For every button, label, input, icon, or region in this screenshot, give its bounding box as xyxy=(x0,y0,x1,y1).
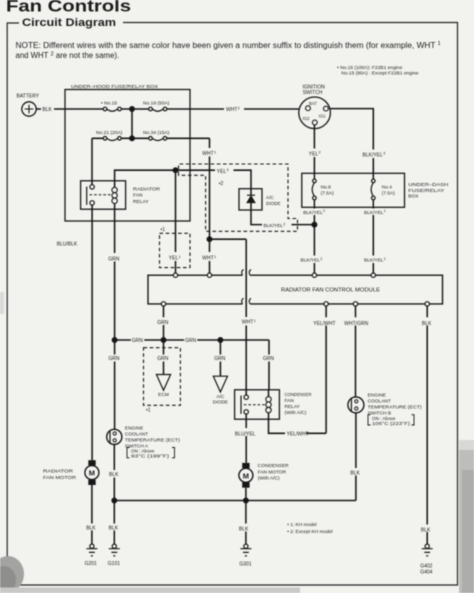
node row2 junction xyxy=(130,136,134,140)
svg-text:G301: G301 xyxy=(239,562,251,568)
radiator fan motor xyxy=(43,460,99,485)
ECT switch A xyxy=(107,425,181,458)
scan artifact left edge mark xyxy=(0,292,4,314)
bullet model notes xyxy=(287,522,332,535)
battery xyxy=(17,93,40,116)
wire GRN down to A/C diode arrow xyxy=(219,340,221,376)
ignition switch xyxy=(299,84,331,128)
svg-text:No.19 (50A): No.19 (50A) xyxy=(143,101,170,107)
svg-text:RELAY: RELAY xyxy=(285,404,301,410)
svg-text:BLK: BLK xyxy=(42,107,52,113)
svg-text:FUSE/RELAY: FUSE/RELAY xyxy=(408,188,445,194)
svg-text:BLK: BLK xyxy=(86,525,96,531)
module terminal WHT/GRN xyxy=(353,302,357,306)
svg-text:G402: G402 xyxy=(420,563,432,569)
wire WHT1 branch to condenser relay column xyxy=(210,238,247,240)
node YEL1 branch xyxy=(173,168,177,172)
node GRN junction at A/C diode arrow xyxy=(218,338,222,342)
svg-text:• 2: Except KH model: • 2: Except KH model xyxy=(287,529,332,535)
wire BLU/BLK relay to radiator fan motor xyxy=(91,205,93,460)
radiator fan relay xyxy=(81,181,161,209)
svg-text:BLK/YEL3: BLK/YEL3 xyxy=(363,152,386,159)
radiator fan control module xyxy=(148,270,443,304)
under-dash fuse/relay box xyxy=(302,173,405,207)
node WHT1 branch xyxy=(207,237,211,241)
svg-text:FAN: FAN xyxy=(133,193,143,199)
svg-text:106°C (223°F): 106°C (223°F) xyxy=(372,421,411,426)
fuse No.15 xyxy=(101,101,121,112)
svg-text:BATTERY: BATTERY xyxy=(17,93,40,99)
ground G301 xyxy=(239,544,251,568)
wire YEL1 to module terminal xyxy=(175,170,177,273)
svg-text:No.34 (15A): No.34 (15A) xyxy=(143,130,170,136)
svg-text:IG2: IG2 xyxy=(303,116,310,121)
svg-text:No.8: No.8 xyxy=(321,184,331,190)
condenser fan motor xyxy=(239,463,289,488)
svg-text:RELAY: RELAY xyxy=(133,199,149,205)
svg-text:No.21 (20A): No.21 (20A) xyxy=(96,130,123,136)
svg-text:•1: •1 xyxy=(161,227,166,233)
wire BLK/YEL2 from No.8 down to module xyxy=(313,207,315,273)
svg-text:GRN: GRN xyxy=(108,256,120,262)
svg-text:FAN: FAN xyxy=(285,398,295,404)
wire relay coil top to YEL3 xyxy=(115,170,176,187)
svg-text:BLK: BLK xyxy=(421,527,431,533)
module terminal GRN xyxy=(161,302,165,306)
svg-text:•1: •1 xyxy=(146,408,151,414)
svg-text:RADIATOR FAN CONTROL MODULE: RADIATOR FAN CONTROL MODULE xyxy=(281,288,381,294)
wire row2 down to relay pin xyxy=(91,138,93,184)
svg-text:BLK: BLK xyxy=(239,527,249,533)
svg-text:BAT: BAT xyxy=(309,101,317,106)
wire GRN down to ECM arrow xyxy=(163,340,165,375)
svg-text:GRN: GRN xyxy=(157,320,169,326)
module terminal WHT1 xyxy=(207,273,211,277)
svg-text:COOLANT: COOLANT xyxy=(368,398,391,404)
svg-text:BLU/YEL: BLU/YEL xyxy=(235,432,256,438)
svg-text:YEL1: YEL1 xyxy=(169,255,181,262)
svg-text:G101: G101 xyxy=(108,561,120,567)
svg-text:BOX: BOX xyxy=(408,194,419,200)
svg-text:UNDER–DASH: UNDER–DASH xyxy=(408,182,449,188)
fuse No.4 xyxy=(371,173,395,207)
wire GRN relay coil down to bus xyxy=(114,204,116,341)
svg-text:BLK/YEL1: BLK/YEL1 xyxy=(364,209,386,216)
svg-text:G404: G404 xyxy=(420,569,432,575)
A/C diode arrow xyxy=(213,376,227,392)
svg-text:COOLANT: COOLANT xyxy=(125,431,148,437)
svg-text:G201: G201 xyxy=(85,561,97,567)
node GRN junction at ECT A xyxy=(112,338,116,342)
node BLK bus at G101 xyxy=(112,498,116,502)
ECM arrow xyxy=(156,375,170,391)
svg-text:BLU/BLK: BLU/BLK xyxy=(57,242,78,248)
wire WHT/GRN module to ECT B xyxy=(355,306,357,397)
svg-text:GRN: GRN xyxy=(263,356,275,362)
svg-text:GRN: GRN xyxy=(157,356,169,362)
svg-text:GRN: GRN xyxy=(132,338,144,344)
svg-text:(7.5A): (7.5A) xyxy=(321,191,334,197)
svg-text:ENGINE: ENGINE xyxy=(368,392,386,398)
svg-text:BLK: BLK xyxy=(109,525,119,531)
svg-text:ENGINE: ENGINE xyxy=(125,425,143,431)
module terminal YEL1 xyxy=(173,273,177,277)
svg-text:M: M xyxy=(89,469,95,478)
fuse No.34 xyxy=(143,130,170,141)
svg-text:YEL/WHT: YEL/WHT xyxy=(287,432,309,438)
ground G101 xyxy=(108,544,120,567)
svg-text:SWITCH: SWITCH xyxy=(303,90,323,96)
wire GRN module to bus xyxy=(163,306,165,340)
wire WHT1 to module terminal xyxy=(209,239,211,273)
svg-text:Fan Controls: Fan Controls xyxy=(6,0,131,16)
svg-text:• No.15 (100A): F22B1 engine: • No.15 (100A): F22B1 engine xyxy=(337,65,403,71)
svg-text:CONDENSER: CONDENSER xyxy=(285,392,312,398)
wire GRN bus xyxy=(115,340,269,390)
svg-text:YEL3: YEL3 xyxy=(217,168,229,175)
wire IG1 to BLK/YEL3 xyxy=(331,109,374,174)
scan artifact right strip xyxy=(459,440,474,593)
wire BLK/YEL2 diode to junction xyxy=(251,210,314,225)
svg-text:YEL2: YEL2 xyxy=(309,151,321,158)
A/C diode D1 xyxy=(239,189,281,210)
svg-text:FAN MOTOR: FAN MOTOR xyxy=(258,469,287,475)
svg-text:IG1: IG1 xyxy=(319,114,326,119)
svg-text:BLK/YEL1: BLK/YEL1 xyxy=(364,257,386,264)
svg-text:A/C: A/C xyxy=(216,394,225,400)
wire WHT2 to ignition switch xyxy=(190,108,299,110)
svg-text:DIODE: DIODE xyxy=(213,399,228,405)
wire row1 between fuses xyxy=(121,108,190,110)
svg-text:and WHT 2 are not the same).: and WHT 2 are not the same). xyxy=(16,51,120,60)
wire BLK ground bus horizontal xyxy=(114,500,356,502)
svg-text:WHT/GRN: WHT/GRN xyxy=(344,321,368,327)
svg-text:CONDENSER: CONDENSER xyxy=(258,463,290,469)
ECT switch B xyxy=(348,392,422,425)
wire YEL/WHT coil to module xyxy=(269,306,327,433)
svg-text:BLK: BLK xyxy=(350,470,360,476)
svg-text:No.4: No.4 xyxy=(382,184,392,190)
svg-text:BLK: BLK xyxy=(109,472,119,478)
wire BLU/YEL relay to condenser fan motor xyxy=(245,414,247,463)
wire GRN down to ECT A xyxy=(114,340,116,429)
svg-text:WHT1: WHT1 xyxy=(242,319,256,326)
wire GRN coil top connection xyxy=(268,390,270,397)
svg-text:1: 1 xyxy=(438,41,441,47)
svg-text:DIODE: DIODE xyxy=(266,201,281,206)
svg-text:BLK/YEL2: BLK/YEL2 xyxy=(301,257,323,264)
svg-text:FAN MOTOR: FAN MOTOR xyxy=(43,475,77,481)
condenser fan relay xyxy=(235,390,312,419)
svg-text:BLK/YEL2: BLK/YEL2 xyxy=(264,222,286,229)
wire BLK/YEL1 from No.4 down to module xyxy=(372,207,374,273)
module terminal BLK/YEL1 xyxy=(371,273,375,277)
dashed ECM box xyxy=(144,348,181,406)
svg-text:• 1: KH model: • 1: KH model xyxy=(287,522,316,528)
fuse No.19 xyxy=(143,101,170,112)
wire BLK motor to G201 xyxy=(91,485,93,544)
svg-text:(7.5A): (7.5A) xyxy=(382,191,395,197)
wire BLK module to G402 xyxy=(426,306,428,544)
wire YEL3 xyxy=(176,170,252,189)
svg-text:TEMPERATURE (ECT): TEMPERATURE (ECT) xyxy=(368,404,422,410)
svg-text:(With A/C): (With A/C) xyxy=(285,410,307,416)
module terminal BLK xyxy=(425,302,429,306)
node BLK bus at G301 xyxy=(244,498,248,502)
svg-text:93°C (199°F): 93°C (199°F) xyxy=(131,454,170,459)
svg-text:WHT1: WHT1 xyxy=(202,255,216,262)
wire row2 xyxy=(92,137,210,139)
svg-text:NOTE: Different wires with th: NOTE: Different wires with the same colo… xyxy=(16,41,436,50)
svg-text:BLK: BLK xyxy=(422,321,432,327)
svg-text:RADIATOR: RADIATOR xyxy=(133,186,160,192)
svg-text:YEL/WHT: YEL/WHT xyxy=(313,321,335,327)
node GRN junction at module drop xyxy=(161,338,165,342)
svg-text:• No.15: • No.15 xyxy=(101,101,117,107)
svg-text:GRN: GRN xyxy=(108,356,120,362)
wire IG2 YEL2 xyxy=(313,125,315,173)
svg-text:TEMPERATURE (ECT): TEMPERATURE (ECT) xyxy=(125,437,180,443)
wire BLK ECT B down to bus xyxy=(355,413,357,501)
svg-text:GRN: GRN xyxy=(214,356,226,362)
node BLK/YEL2 junction xyxy=(312,222,316,226)
svg-text:M: M xyxy=(243,471,249,480)
ground G201 xyxy=(85,544,98,567)
module terminal YEL/WHT xyxy=(324,302,328,306)
under-hood fuse/relay box xyxy=(65,90,190,222)
ground G402/G404 xyxy=(420,544,433,575)
svg-text:(With A/C): (With A/C) xyxy=(258,476,280,482)
svg-text:GRN: GRN xyxy=(185,338,197,344)
wire BLK condenser motor to G301 xyxy=(245,488,247,544)
svg-text:ECM: ECM xyxy=(158,392,169,398)
wire WHT1 from row2 down xyxy=(209,138,211,239)
node row1 junction xyxy=(130,107,134,111)
scan artifact bottom-left blob xyxy=(0,556,300,593)
svg-text:Circuit Diagram: Circuit Diagram xyxy=(22,17,116,29)
wire BLK ECT A to ground bus xyxy=(113,445,115,544)
fuse No.8 xyxy=(312,173,334,207)
svg-text:BLK/YEL2: BLK/YEL2 xyxy=(303,209,325,216)
dashed KH-model box around YEL1 xyxy=(160,233,191,267)
wire link row1-row2 xyxy=(131,109,133,138)
svg-text:A/C: A/C xyxy=(266,195,274,200)
wire WHT1 through module to condenser relay xyxy=(245,239,247,395)
module terminal BLK/YEL2 xyxy=(312,273,316,277)
fuse No.21 xyxy=(96,130,123,141)
wire BLK battery to under-hood box xyxy=(36,108,41,110)
svg-text:No.15 (80A) : Except F22B1 en: No.15 (80A) : Except F22B1 engine xyxy=(341,71,418,77)
svg-text:UNDER–HOOD FUSE/RELAY BOX: UNDER–HOOD FUSE/RELAY BOX xyxy=(71,84,159,90)
svg-text:RADIATOR: RADIATOR xyxy=(43,468,74,474)
dashed with-A/C outline xyxy=(179,164,298,231)
svg-text:•2: •2 xyxy=(219,181,224,187)
